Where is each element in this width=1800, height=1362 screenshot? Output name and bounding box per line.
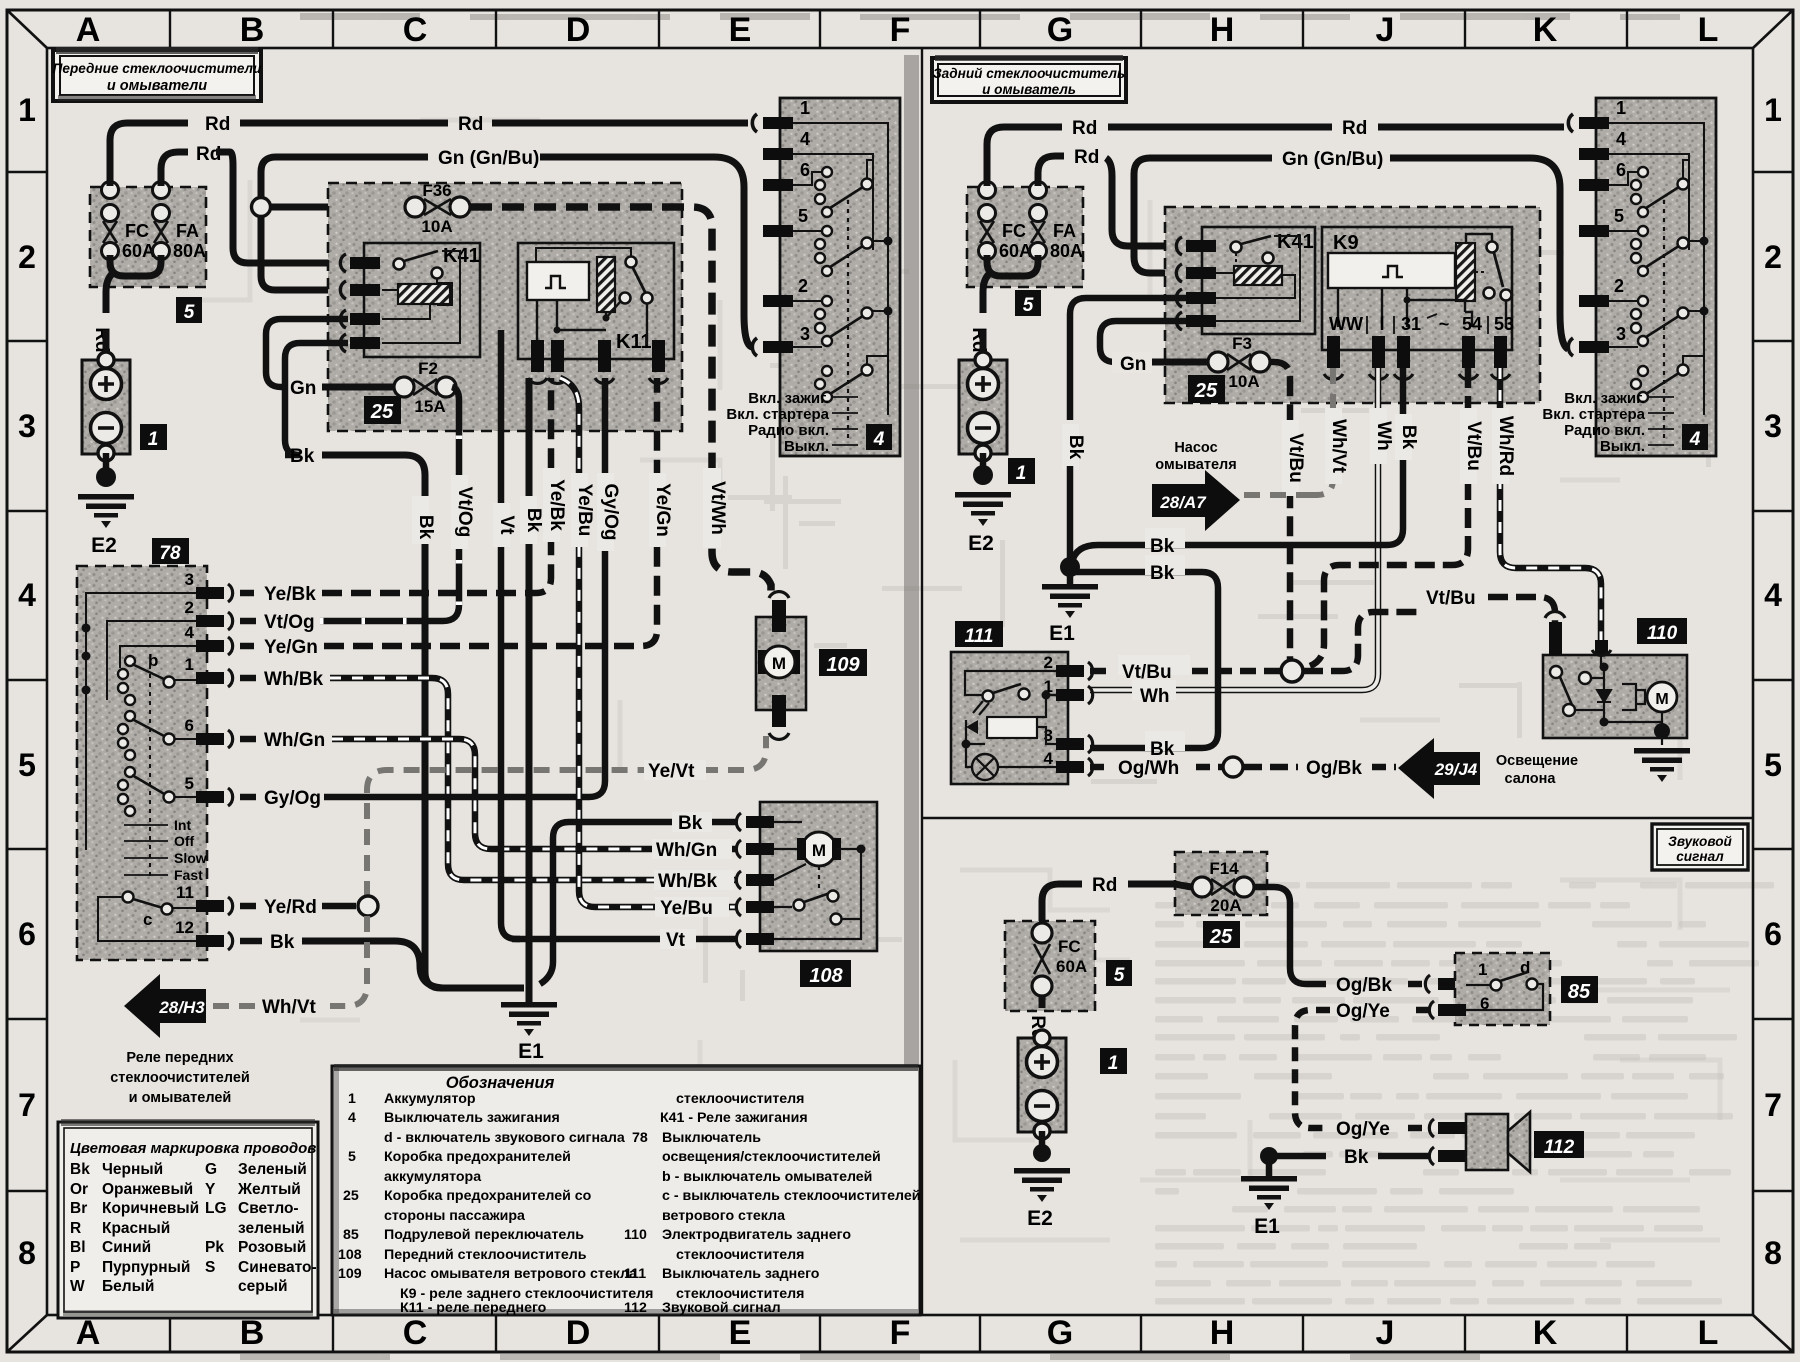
svg-text:G: G [205,1161,217,1178]
svg-text:4: 4 [1764,577,1782,613]
contact bank 1 [815,167,832,217]
svg-text:Bk: Bk [1150,739,1175,760]
wire K41R pin3 to Bk vertical to E1 [1070,298,1186,420]
svg-text:E1: E1 [1254,1215,1280,1238]
svg-text:Rd: Rd [1072,118,1097,139]
wire Ye/Vt row (washer) [367,736,766,897]
timer box [527,262,589,300]
wire Vt/Bu from F3 down to connector node [1270,362,1290,660]
svg-text:10A: 10A [1228,372,1259,391]
svg-text:Rd: Rd [1092,875,1117,896]
svg-text:омывателя: омывателя [1155,457,1236,473]
svg-text:K: K [1533,1314,1558,1352]
wire Ye/Gn row (pin 4) [240,378,657,658]
wire Gy/Og row (pin 5) [240,378,605,809]
svg-text:Ye/Bk: Ye/Bk [264,584,316,605]
svg-text:31: 31 [1401,314,1421,334]
wire K41 pin4 to Bk row [285,343,348,455]
svg-text:110: 110 [1647,623,1678,644]
internal wiring [793,123,888,415]
svg-text:1: 1 [348,1091,356,1107]
relay K9 [1322,227,1514,379]
fuse F2 15A [290,359,456,416]
ground E1 (horn) [1266,1160,1273,1176]
svg-text:3: 3 [1764,408,1782,444]
bank 3b [815,366,832,402]
svg-text:Черный: Черный [102,1161,163,1178]
svg-text:K9: K9 [1333,232,1359,254]
svg-text:Электродвигатель заднего: Электродвигатель заднего [662,1227,851,1243]
color code legend box [58,1119,318,1318]
svg-text:85: 85 [343,1227,359,1243]
fuse FC 60A [979,182,996,260]
pins [763,117,793,129]
arrow 29/J4 [1398,738,1578,799]
svg-text:Ye/Bu: Ye/Bu [660,898,713,919]
pins 3,2,4,1,6,5,11,12 [196,587,224,947]
svg-text:J: J [1376,1314,1395,1352]
ignition switch 4 [726,98,900,456]
svg-text:Выключатель заднего: Выключатель заднего [662,1266,820,1282]
svg-text:Выкл.: Выкл. [784,438,829,455]
svg-text:M: M [1655,691,1668,708]
svg-text:60A: 60A [1056,957,1087,976]
rear wiper switch 111 [951,621,1093,784]
svg-text:5: 5 [798,206,808,226]
svg-text:Насос омывателя ветрового стек: Насос омывателя ветрового стекла [384,1266,637,1282]
svg-text:FA: FA [176,221,199,241]
wire Wh/Rd from 53 pin to motor 110 [1492,368,1601,640]
svg-text:3: 3 [800,324,810,344]
svg-text:Подрулевой переключатель: Подрулевой переключатель [384,1227,584,1243]
svg-text:Vt/Og: Vt/Og [454,487,475,538]
svg-text:E1: E1 [1049,622,1075,645]
coil [398,284,450,304]
svg-text:Slow: Slow [174,850,207,866]
battery 1 (horn) [1018,1030,1066,1139]
fuse F36 10A [405,181,470,236]
svg-text:Синий: Синий [102,1239,151,1256]
svg-text:Vt/Bu: Vt/Bu [1122,662,1172,683]
svg-text:Y: Y [205,1181,216,1198]
svg-text:Br: Br [70,1200,87,1217]
title box: Передние стеклоочистители и омыватели [53,47,262,101]
svg-text:E2: E2 [1027,1207,1053,1230]
wire Ye/Rd row (pin 11) [240,896,378,918]
fuse FC 60A [102,182,119,260]
vertical Bk from K11 pin1 to E1 [526,378,533,1000]
svg-text:20A: 20A [1210,896,1241,915]
svg-text:4: 4 [185,623,195,642]
svg-text:5: 5 [18,747,36,783]
svg-text:салона: салона [1504,771,1556,787]
svg-text:Og/Ye: Og/Ye [1336,1001,1390,1022]
svg-text:и омыватель: и омыватель [982,82,1076,97]
svg-text:сигнал: сигнал [1676,849,1724,864]
svg-text:Передние стеклоочистители: Передние стеклоочистители [53,61,262,76]
svg-text:2: 2 [1044,653,1053,672]
svg-text:Ye/Rd: Ye/Rd [264,897,317,918]
svg-text:Bk: Bk [1150,563,1175,584]
svg-text:2: 2 [185,598,194,617]
svg-text:F36: F36 [422,181,451,200]
title box: Задний стеклоочиститель и омыватель [932,55,1126,102]
ground E1 (right) [1067,572,1074,584]
wire Bk row (pin 12) to E1 [240,932,524,988]
svg-text:Wh/Bk: Wh/Bk [264,669,324,690]
svg-text:6: 6 [18,916,36,952]
svg-text:108: 108 [338,1247,362,1263]
interior [1550,666,1562,678]
svg-text:LG: LG [205,1200,227,1217]
svg-text:Вкл. зажиг.: Вкл. зажиг. [748,390,829,407]
ground E2 (right) [955,492,1011,526]
wire K41 pin3 to Gn row [266,319,348,387]
svg-text:Освещение: Освещение [1496,753,1578,769]
svg-text:25: 25 [1194,380,1218,402]
ground E2 (horn) [1014,1168,1070,1202]
svg-text:C: C [403,1314,428,1352]
vertical Vt from K41 down to motor row [501,330,520,939]
bottom pins [531,340,544,372]
svg-text:4: 4 [873,429,885,450]
svg-text:Звуковой: Звуковой [1668,834,1732,849]
svg-text:H: H [1210,1314,1235,1352]
wire Bk from ground E1 to horn 112 [1260,1147,1278,1165]
svg-text:Gn: Gn [290,378,316,399]
svg-text:Wh/Gn: Wh/Gn [656,840,717,861]
svg-text:Vt/Bu: Vt/Bu [1426,588,1476,609]
svg-text:стороны пассажира: стороны пассажира [384,1208,525,1224]
wire Vt/Bu node to motor 110 [1303,612,1418,671]
svg-text:Rd: Rd [1074,147,1099,168]
coil hatched [1456,243,1475,301]
svg-text:Wh/Vt: Wh/Vt [1328,419,1349,473]
fuse box 5 (horn) with FC 60A [1005,921,1132,1011]
svg-text:80A: 80A [1050,241,1083,261]
vertical Ye/Bk label [543,468,560,542]
svg-text:Синевато-: Синевато- [238,1259,317,1276]
svg-text:2: 2 [798,276,808,296]
svg-text:Желтый: Желтый [237,1181,301,1198]
labels on motor rows [652,839,732,859]
svg-text:Белый: Белый [102,1278,154,1295]
wire Vt row to motor 108 [512,936,736,943]
svg-text:FC: FC [1002,221,1026,241]
wire Vt/Og row (pin 2) [240,387,459,633]
switch lever [394,259,405,270]
svg-text:E: E [729,11,752,49]
svg-text:8: 8 [1764,1235,1782,1271]
svg-text:стеклоочистителя: стеклоочистителя [676,1247,804,1263]
svg-text:Rd: Rd [458,114,483,135]
wire Wh/Bk row (pin 1) [240,669,736,880]
svg-text:B: B [240,1314,265,1352]
svg-text:111: 111 [965,626,994,647]
svg-text:E1: E1 [518,1040,544,1063]
svg-text:108: 108 [809,965,843,987]
relay K41 (right) [1176,227,1315,334]
svg-text:Gn (Gn/Bu): Gn (Gn/Bu) [438,148,539,169]
svg-text:Bk: Bk [1398,425,1419,450]
svg-text:Int: Int [174,817,191,833]
svg-text:P: P [70,1259,80,1276]
svg-text:K41: K41 [1277,231,1314,253]
svg-text:Gn (Gn/Bu): Gn (Gn/Bu) [1282,149,1383,170]
fuse box 5 (right) [967,182,1083,317]
svg-text:Rd: Rd [205,114,230,135]
svg-text:Насос: Насос [1174,440,1217,456]
svg-text:85: 85 [1568,981,1591,1003]
wire K41R pin4 to Gn row / F3 [1100,321,1186,362]
svg-text:15A: 15A [414,397,445,416]
svg-text:К11 - реле переднего: К11 - реле переднего [400,1300,547,1316]
wire Rd row 1 (to ignition pin 1, right) [987,127,1062,186]
label box 5 [1015,290,1041,316]
interior [86,593,196,850]
svg-text:Пурпурный: Пурпурный [102,1259,190,1276]
fuse box 5 (battery fuse box) [90,182,206,324]
svg-text:2: 2 [18,239,36,275]
svg-text:Vt/Bu: Vt/Bu [1285,433,1306,483]
gutter shadow [904,55,919,1310]
svg-text:Wh/Gn: Wh/Gn [264,730,325,751]
fuse F3 10A [1152,334,1270,391]
svg-text:Bk: Bk [1344,1147,1369,1168]
bottom pins [1327,336,1507,368]
wiper switch 78 [77,538,233,960]
svg-text:Vt: Vt [496,516,517,536]
svg-text:Радио вкл.: Радио вкл. [748,422,829,439]
wire: U-link under fuses [110,255,161,276]
horn switch 85 [1429,953,1598,1025]
svg-text:Gy/Og: Gy/Og [600,483,621,540]
svg-text:M: M [812,841,826,860]
svg-text:111: 111 [624,1266,646,1282]
svg-text:Og/Bk: Og/Bk [1336,975,1392,996]
svg-text:и омывателей: и омывателей [129,1090,232,1106]
svg-text:d - включатель звукового сигна: d - включатель звукового сигнала [384,1130,625,1146]
fuse FA 80A [1030,182,1047,260]
svg-text:Ye/Gn: Ye/Gn [264,637,318,658]
svg-text:Bk: Bk [70,1161,90,1178]
svg-text:28/A7: 28/A7 [1159,493,1207,512]
svg-text:1: 1 [185,655,194,674]
svg-text:G: G [1047,11,1073,49]
ground under motor 110 [1634,748,1690,782]
wire Rd FC to battery (horn) [1039,996,1046,1008]
wire Wh/Vt to relay connector 28/H3 [212,916,367,1006]
svg-text:ветрового стекла: ветрового стекла [662,1208,785,1224]
svg-text:L: L [1698,1314,1719,1352]
svg-text:25: 25 [1209,926,1233,948]
node: connector circle Vt/Bu [1281,660,1303,682]
svg-text:4: 4 [1044,749,1054,768]
svg-text:Wh/Rd: Wh/Rd [1495,416,1516,476]
svg-text:освещения/стеклоочистителей: освещения/стеклоочистителей [662,1149,881,1165]
relay K41 [340,243,480,357]
wire junction down to K41 pin 2 [261,217,348,290]
svg-text:78: 78 [159,543,181,564]
svg-text:A: A [76,11,101,49]
wire Bk row 2 from E1 to switch 111 pin 3 jog [1074,572,1218,748]
svg-text:FC: FC [125,221,149,241]
wire Gn (Gn/Bu) row (to ignition pin 4) [261,157,428,198]
svg-text:Ye/Bu: Ye/Bu [574,484,595,537]
svg-text:Pk: Pk [205,1239,224,1256]
label box 5 [176,297,202,323]
wire Og/Ye jog from 85 pin 6 down to horn 112 [1412,1007,1430,1014]
svg-text:c - выключатель стеклоочистите: c - выключатель стеклоочистителей [662,1188,920,1204]
svg-text:2: 2 [1764,239,1782,275]
svg-text:109: 109 [338,1266,362,1282]
svg-text:1: 1 [148,429,159,450]
ground E2 [78,494,134,528]
ground E1 [526,988,533,1002]
svg-text:Bk: Bk [1150,536,1175,557]
svg-text:29/J4: 29/J4 [1434,760,1478,779]
svg-text:10A: 10A [421,217,452,236]
svg-text:C: C [403,11,428,49]
battery 1 [82,352,130,461]
wire Bk row motor 108 to E1 [540,822,736,984]
svg-text:7: 7 [1764,1087,1782,1123]
svg-text:c: c [143,910,152,929]
svg-text:109: 109 [826,654,860,676]
svg-text:80A: 80A [173,241,206,261]
svg-text:28/H3: 28/H3 [158,998,205,1017]
wire Rd (battery feed down) [106,274,112,313]
svg-text:Wh: Wh [1373,421,1394,451]
wire Wh label on row [1132,680,1176,700]
svg-text:W: W [70,1278,85,1295]
fuse/relay box 25 (passenger side fuse box) [328,183,682,431]
svg-text:6: 6 [800,160,810,180]
fuse box 25 (horn) with F14 [1175,852,1267,948]
svg-text:Vt/Wh: Vt/Wh [707,481,728,535]
svg-text:1: 1 [1016,463,1027,484]
svg-text:F: F [890,1314,911,1352]
svg-text:11: 11 [176,883,194,902]
svg-text:l: l [1379,314,1384,334]
wire Vt/Bu from 54 pin jog to node [1310,368,1468,666]
svg-text:L: L [1698,11,1719,49]
svg-text:Fast: Fast [174,867,203,883]
svg-text:F14: F14 [1209,859,1239,878]
svg-text:Vt: Vt [666,930,686,951]
svg-text:Вкл. стартера: Вкл. стартера [726,406,829,423]
svg-text:Светло-: Светло- [238,1200,299,1217]
svg-text:Ye/Gn: Ye/Gn [652,483,673,537]
contact bank 2 [815,226,832,276]
wire Rd battery feed (right) [983,274,989,313]
svg-text:F2: F2 [418,359,438,378]
wire Rd horn from FC to F14 [1042,884,1082,921]
svg-text:Wh: Wh [1140,686,1170,707]
svg-text:Оранжевый: Оранжевый [102,1181,193,1198]
svg-text:Зеленый: Зеленый [238,1161,307,1178]
svg-text:аккумулятора: аккумулятора [384,1169,481,1185]
wire Bk from K9 31 pin to E1 right [1072,368,1403,562]
fuse/relay box 25 (right) [1165,207,1540,403]
node: junction circle at F36 feed [252,198,271,217]
svg-text:Bk: Bk [678,813,703,834]
rear wiper motor 110 [1543,612,1687,745]
svg-text:Wh/Vt: Wh/Vt [262,997,316,1018]
svg-text:112: 112 [624,1300,647,1316]
svg-text:Gy/Og: Gy/Og [264,788,321,809]
svg-text:E2: E2 [968,532,994,555]
svg-text:Bk: Bk [1065,435,1086,460]
wire Wh from K9 I pin to switch 111 pin 1 [1090,368,1394,690]
svg-text:5: 5 [184,302,195,323]
svg-text:1: 1 [1478,960,1487,979]
wire battery to ground [103,453,110,478]
arrow 28/H3 [124,974,206,1038]
washer pump motor 109 [756,592,867,740]
relay K11 [518,243,674,383]
svg-text:FC: FC [1058,937,1081,956]
svg-text:Обозначения: Обозначения [446,1074,555,1092]
svg-text:Gn: Gn [1120,354,1146,375]
svg-text:B: B [240,11,265,49]
svg-text:K41: K41 [443,245,480,267]
svg-text:4: 4 [18,577,36,613]
svg-text:Ye/Vt: Ye/Vt [648,761,695,782]
svg-text:Красный: Красный [102,1220,170,1237]
pin row 1..4 [350,257,380,269]
svg-text:7: 7 [18,1087,36,1123]
svg-text:D: D [566,11,591,49]
svg-text:Аккумулятор: Аккумулятор [384,1091,476,1107]
svg-text:Bk: Bk [523,508,544,533]
ignition switch 4 (right) [1542,98,1716,456]
horn 112 [1466,1112,1584,1172]
legend box (Обозначения) [332,1064,920,1316]
interior [965,671,1056,695]
wire Vt/Wh heavy dashed from F36 down to motor 109 [470,207,771,596]
svg-text:зеленый: зеленый [238,1220,305,1237]
svg-text:Or: Or [70,1181,88,1198]
wire Rd row 2 (to relay K41 right pin 1) [1038,156,1064,186]
svg-text:WW: WW [1329,314,1363,334]
svg-text:Выключатель: Выключатель [662,1130,761,1146]
svg-text:серый: серый [238,1278,287,1295]
svg-text:Bk: Bk [415,515,436,540]
svg-text:E: E [729,1314,752,1352]
wire: U-link under fuses [987,255,1038,276]
svg-text:5: 5 [1023,295,1034,316]
front wiper motor 108 [736,802,877,987]
svg-text:Задний стеклоочиститель: Задний стеклоочиститель [933,66,1125,81]
svg-text:112: 112 [1544,1137,1575,1158]
svg-text:4: 4 [800,129,810,149]
svg-text:Передний стеклоочиститель: Передний стеклоочиститель [384,1247,587,1263]
vertical Ye/Bu from K11 to motor row [560,378,736,907]
svg-text:D: D [566,1314,591,1352]
svg-text:Выключатель зажигания: Выключатель зажигания [384,1110,560,1126]
svg-text:F3: F3 [1232,334,1252,353]
svg-text:53: 53 [1494,314,1514,334]
svg-text:5: 5 [1764,747,1782,783]
svg-text:1: 1 [18,92,36,128]
coil hatched [597,257,615,312]
wire Rd row 2 (to relay K41 pin 1) [161,152,188,186]
fuse FA 80A [153,182,170,260]
svg-text:110: 110 [624,1227,647,1243]
svg-text:J: J [1376,11,1395,49]
svg-text:Коробка предохранителей со: Коробка предохранителей со [384,1188,592,1204]
